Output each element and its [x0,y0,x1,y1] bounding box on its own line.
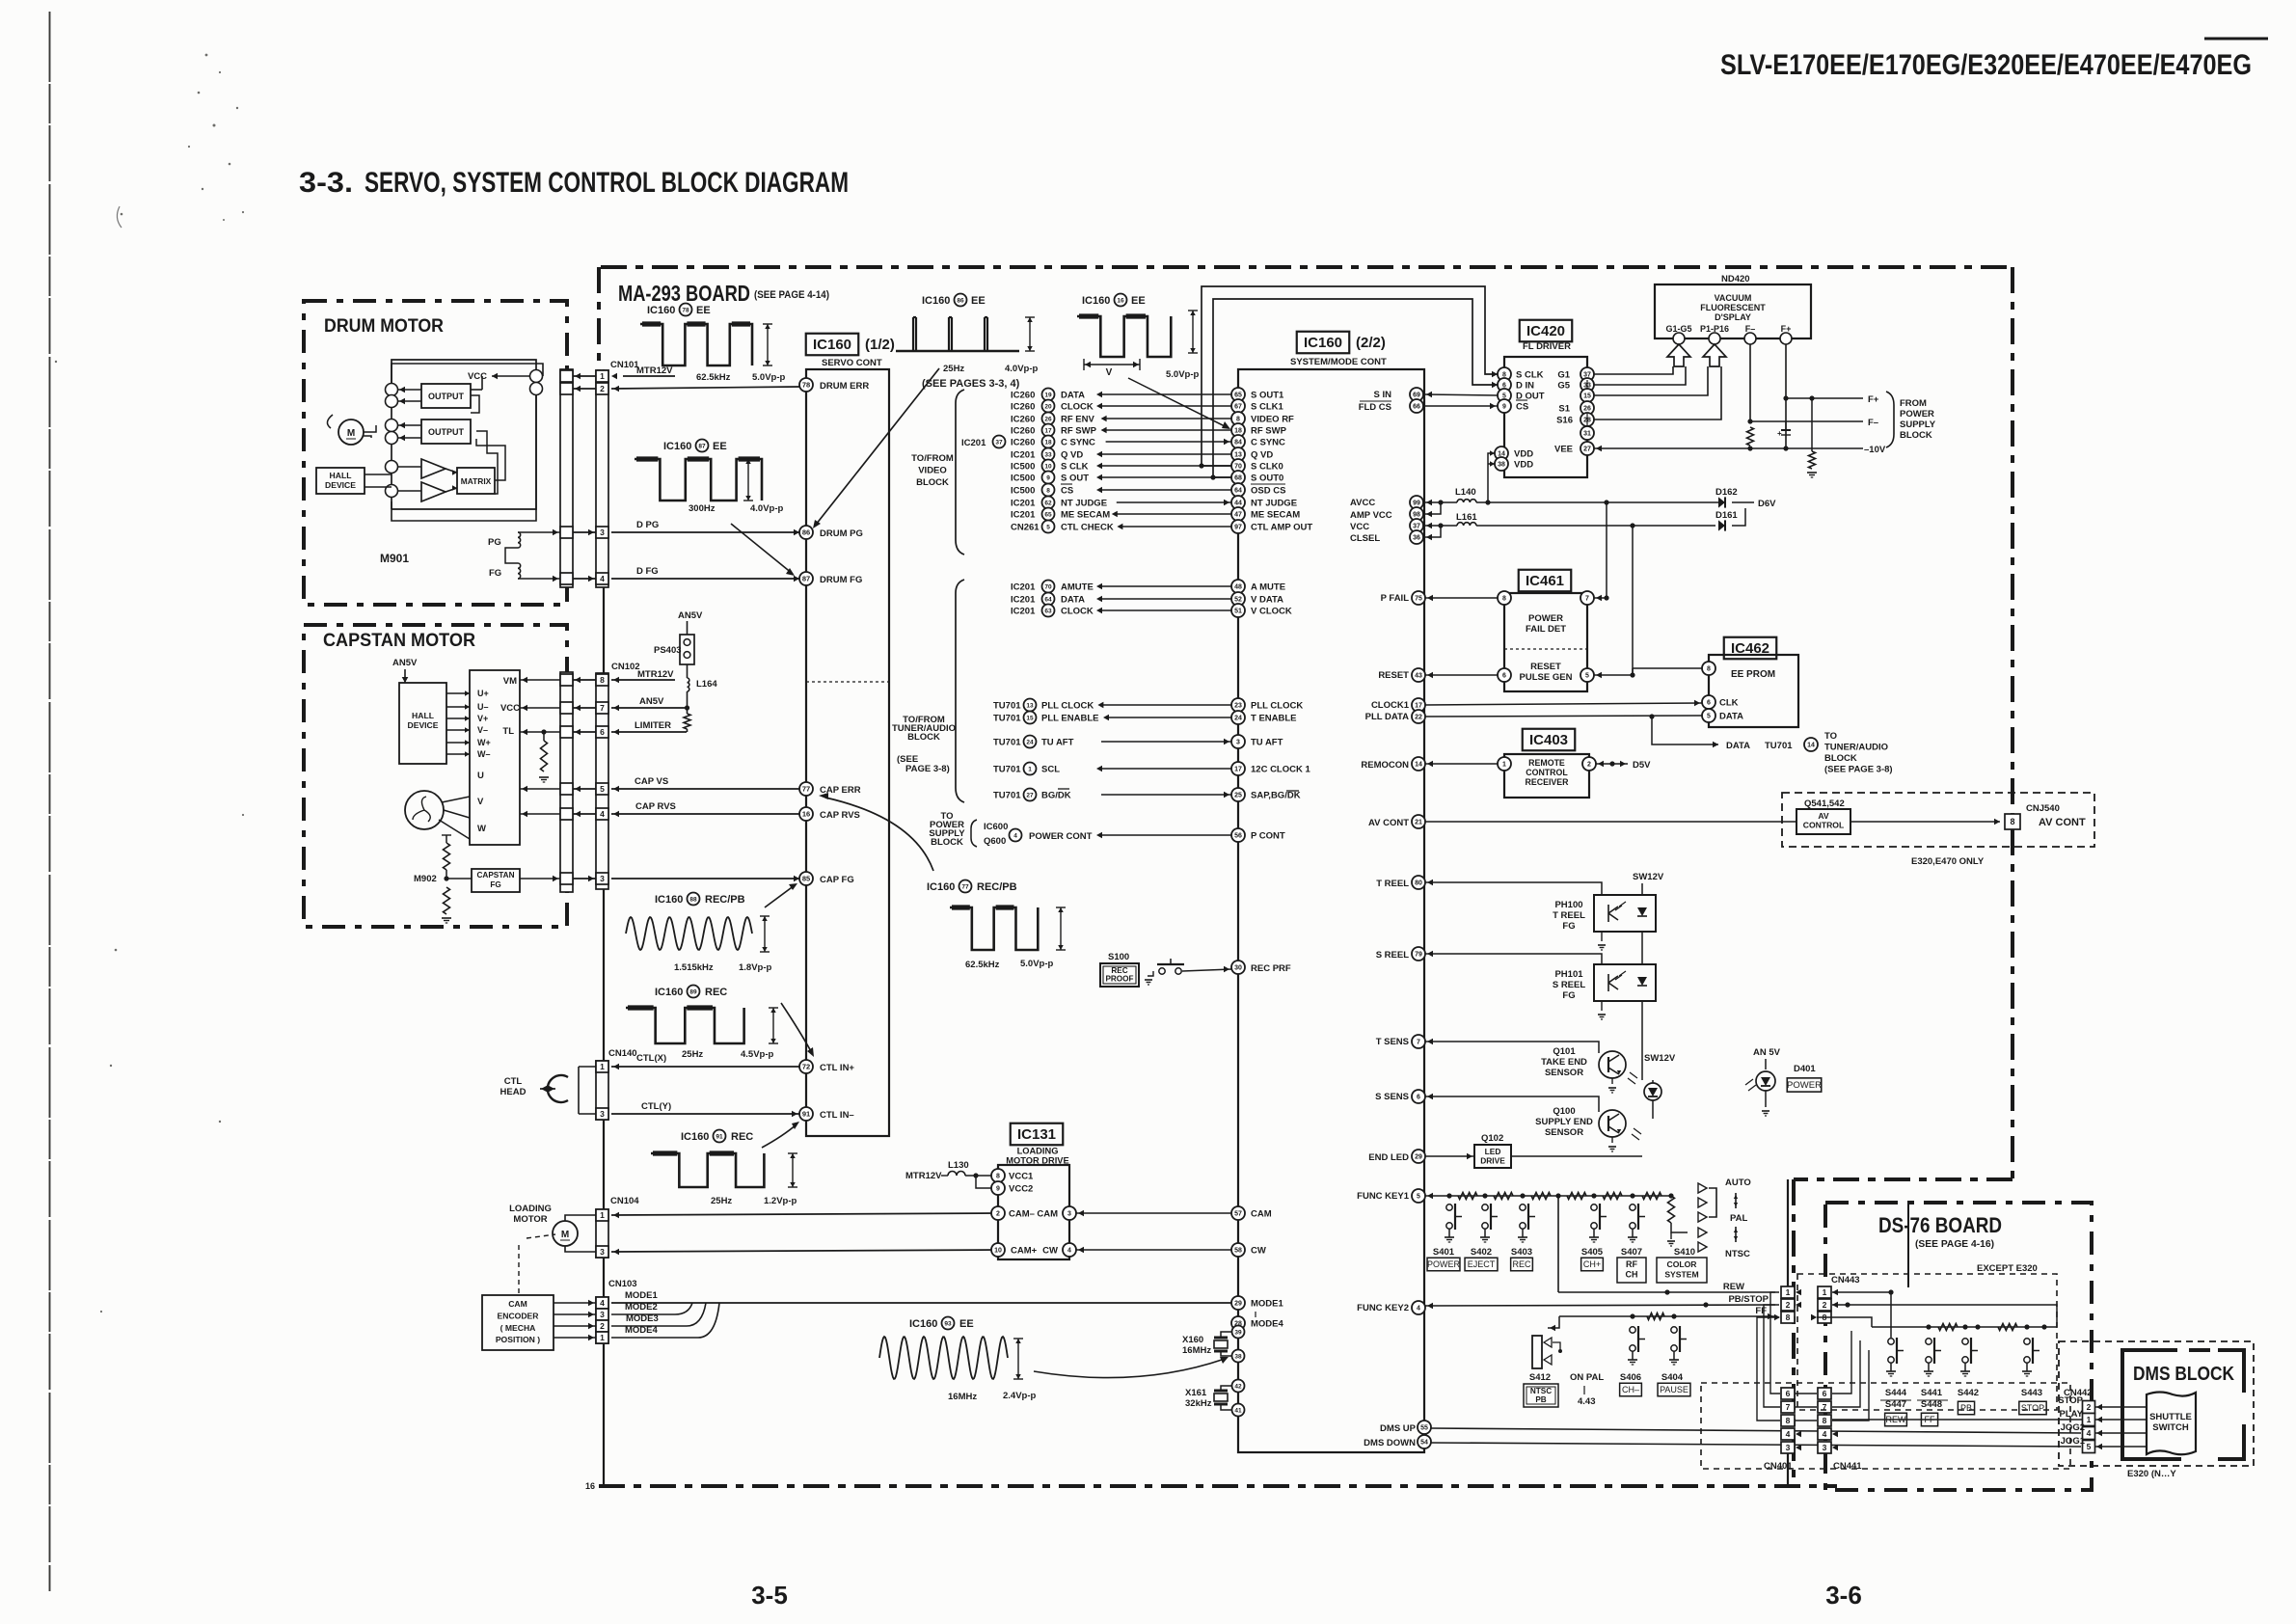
svg-text:4: 4 [1823,1429,1827,1439]
svg-text:IC500: IC500 [1011,462,1035,473]
svg-text:97: 97 [1234,525,1242,531]
wire CAM line CN104-1 to IC131 [611,1213,998,1215]
svg-text:17: 17 [1044,427,1052,434]
svg-text:14: 14 [1415,762,1422,769]
svg-text:MTR12V: MTR12V [636,365,673,376]
svg-text:AMP VCC: AMP VCC [1350,510,1392,521]
svg-text:W–: W– [477,749,491,759]
svg-text:POWER: POWER [1528,613,1563,624]
svg-text:S1: S1 [1558,404,1570,415]
svg-text:S405: S405 [1581,1247,1604,1258]
CAM ENCODER box [482,1295,554,1350]
svg-text:21: 21 [1415,820,1422,826]
svg-text:MTR12V: MTR12V [637,669,674,680]
svg-text:TUNER/AUDIO: TUNER/AUDIO [1824,743,1888,753]
wire MODE3 stub [611,1325,687,1327]
svg-text:PAUSE: PAUSE [1660,1385,1688,1394]
svg-text:D'SPLAY: D'SPLAY [1715,312,1751,322]
svg-text:CN103: CN103 [608,1279,637,1289]
hollow arrow into G1-G5 [1667,344,1690,366]
svg-text:48: 48 [1234,584,1242,591]
wire MTR12V into CN101-1 [623,375,675,377]
svg-text:G5: G5 [1557,381,1570,392]
svg-text:MA-293 BOARD: MA-293 BOARD [618,281,750,306]
svg-text:TU701: TU701 [1765,741,1793,751]
wire -10V line [1594,447,1863,449]
svg-text:38: 38 [1234,1353,1242,1360]
svg-text:3: 3 [600,874,605,883]
svg-text:RF SWP: RF SWP [1251,426,1287,437]
svg-text:M901: M901 [380,552,409,565]
svg-text:CNJ540: CNJ540 [2026,803,2060,814]
svg-text:NTSC: NTSC [1530,1387,1552,1395]
svg-text:X161: X161 [1185,1388,1207,1398]
svg-text:FG: FG [489,568,501,579]
svg-text:DMS DOWN: DMS DOWN [1364,1438,1416,1448]
svg-text:MOTOR: MOTOR [513,1214,547,1225]
wire MODE1 line [611,1302,1231,1304]
wire D FG [611,578,799,580]
pin 91 CTL IN- [799,1107,813,1121]
svg-text:TU AFT: TU AFT [1251,738,1283,748]
svg-text:5.0Vp-p: 5.0Vp-p [1020,959,1054,969]
svg-text:CONTROL: CONTROL [1803,821,1845,830]
selector triangles auto pal ntsc [1698,1183,1707,1193]
svg-text:SYSTEM: SYSTEM [1664,1270,1698,1280]
svg-text:TAKE END: TAKE END [1541,1057,1587,1068]
svg-text:29: 29 [1415,1154,1422,1161]
svg-text:8: 8 [1707,666,1711,673]
VFD vacuum fluorescent display box [1655,284,1811,338]
svg-text:IC160: IC160 [922,295,950,307]
svg-text:62.5kHz: 62.5kHz [965,960,1000,970]
wire S REEL line [1425,954,1602,964]
svg-text:D161: D161 [1715,510,1738,521]
output amp U1a [421,384,471,408]
svg-text:T ENABLE: T ENABLE [1251,714,1297,724]
wires motor to driver [439,791,470,798]
remote sensor S412 [1532,1336,1542,1368]
IC462 pins [1702,662,1715,675]
wire 28 to P1-P16 right [1594,366,1721,420]
svg-text:56: 56 [1234,833,1242,840]
svg-text:SUPPLY END: SUPPLY END [1535,1117,1593,1127]
svg-text:AN5V: AN5V [392,658,418,668]
svg-text:8: 8 [1786,1313,1791,1322]
wire CN441 stub [1823,1453,1825,1466]
svg-text:FROM: FROM [1900,398,1927,409]
svg-text:C SYNC: C SYNC [1061,438,1095,448]
waveform WF4 V square [1077,316,1171,357]
svg-text:8: 8 [1046,487,1050,494]
IC420 VDD pins [1495,447,1508,460]
svg-text:V DATA: V DATA [1251,595,1283,606]
wire CAP FG [611,878,799,880]
svg-text:ENCODER: ENCODER [498,1311,540,1320]
svg-text:U+: U+ [477,689,489,698]
svg-text:FUNC KEY2: FUNC KEY2 [1357,1303,1409,1313]
svg-text:P CONT: P CONT [1251,831,1285,842]
svg-text:IC260: IC260 [1011,415,1035,425]
svg-text:(1/2): (1/2) [865,337,895,353]
svg-text:(SEE PAGE 3-8): (SEE PAGE 3-8) [1824,765,1893,775]
svg-text:80: 80 [1415,880,1422,887]
svg-text:G1: G1 [1557,370,1570,381]
svg-text:Q VD: Q VD [1251,450,1273,461]
svg-text:26: 26 [1583,406,1591,413]
svg-text:PG: PG [488,537,501,548]
svg-text:77: 77 [961,883,969,890]
svg-text:TU701: TU701 [993,765,1021,775]
svg-text:65: 65 [1044,511,1052,518]
svg-text:U–: U– [477,702,489,712]
Q101 ground [1611,1078,1613,1084]
svg-text:33: 33 [1044,451,1052,458]
svg-text:MODE4: MODE4 [625,1325,659,1336]
DMS block inner bracket box [2122,1350,2181,1459]
svg-text:16: 16 [585,1481,595,1491]
curved arrow WF7 to CTL IN- [762,1124,797,1148]
svg-text:17: 17 [1234,767,1242,773]
svg-text:TU701: TU701 [993,701,1021,712]
svg-text:L140: L140 [1455,487,1476,498]
svg-text:M902: M902 [414,874,437,884]
svg-text:DATA: DATA [1061,595,1085,606]
switch S402 EJECT [1482,1204,1488,1210]
svg-text:2: 2 [1823,1300,1827,1310]
wire pin5 to IC462 pin8 [1633,667,1702,669]
wire CTL head to CN140 [579,1066,596,1068]
svg-text:4: 4 [600,574,605,583]
wire STOP loop [2044,1360,2079,1407]
svg-text:VACUUM: VACUUM [1715,293,1752,303]
svg-text:SLV-E170EE/E170EG/E320EE/E470E: SLV-E170EE/E170EG/E320EE/E470EE/E470EG [1720,49,2252,81]
wire FF left branch to S412 [1548,1316,1559,1328]
svg-text:25Hz: 25Hz [682,1049,703,1060]
svg-text:IC461: IC461 [1526,573,1564,589]
wires drum outputs [398,389,421,391]
svg-text:CLOCK1: CLOCK1 [1371,700,1410,711]
svg-text:4: 4 [1067,1248,1071,1255]
svg-text:S REEL: S REEL [1376,950,1410,961]
svg-text:OSD CS: OSD CS [1251,486,1285,497]
switch row resistor line [1872,1326,2057,1328]
svg-text:18: 18 [1234,428,1242,435]
svg-text:VIDEO RF: VIDEO RF [1251,415,1294,425]
svg-text:TU AFT: TU AFT [1041,738,1074,748]
svg-text:CAM: CAM [1251,1209,1272,1220]
BG/DK overline [1058,788,1069,790]
wire CN443-8 FF to S441 row [1817,1317,1872,1327]
svg-text:57: 57 [1234,1211,1242,1218]
svg-text:TU701: TU701 [993,738,1021,748]
svg-text:IC500: IC500 [1011,486,1035,497]
svg-text:2: 2 [2087,1402,2092,1412]
curved arrow WF6 to CTL IN+ [781,1003,812,1053]
wire F+ down [1785,344,1787,448]
svg-text:44: 44 [1234,501,1242,507]
wire main left bus vertical [603,369,605,1486]
svg-text:PB: PB [1960,1403,1972,1413]
svg-text:2: 2 [600,384,605,393]
svg-text:RF SWP: RF SWP [1061,426,1097,437]
IC160 (2/2) label [1297,332,1350,354]
svg-text:1: 1 [600,1333,605,1342]
resistor on F- leg [1747,427,1754,446]
svg-text:3-3.: 3-3. [299,167,353,199]
svg-text:4.0Vp-p: 4.0Vp-p [1005,364,1039,374]
MA-293 board dashed outline [601,265,2012,269]
svg-text:EE: EE [1131,295,1146,307]
svg-text:CN104: CN104 [610,1196,639,1206]
svg-text:SWITCH: SWITCH [2152,1422,2189,1433]
svg-text:IC600: IC600 [984,822,1008,832]
svg-text:IC260: IC260 [1011,438,1035,448]
svg-text:S447: S447 [1885,1399,1906,1410]
svg-text:REC: REC [731,1131,753,1143]
svg-text:SERVO, SYSTEM CONTROL BLOCK DI: SERVO, SYSTEM CONTROL BLOCK DIAGRAM [365,167,849,199]
svg-text:CLOCK: CLOCK [1061,402,1094,413]
arrow to DRUM PG [816,368,939,525]
svg-text:IC500: IC500 [1011,474,1035,484]
svg-text:12C CLOCK 1: 12C CLOCK 1 [1251,765,1310,775]
svg-text:5: 5 [1707,714,1711,720]
svg-text:30: 30 [1234,965,1242,972]
svg-text:CW: CW [1251,1246,1266,1257]
svg-text:S402: S402 [1471,1247,1492,1258]
svg-text:7: 7 [1417,1040,1420,1046]
switch S406 CH- [1630,1327,1635,1333]
wire REMOCON to IC403 [1425,763,1498,765]
svg-text:IC201: IC201 [1011,510,1036,521]
pin 72 CTL IN+ [799,1060,813,1073]
svg-text:SUPPLY: SUPPLY [1900,420,1936,430]
hall device (drum) [316,468,365,494]
svg-text:POWER: POWER [1900,409,1934,420]
wires drum output feedback [471,395,479,413]
wire REW row [1558,1291,1775,1293]
svg-text:98: 98 [1413,512,1420,519]
svg-text:91: 91 [802,1110,810,1119]
pin 86 DRUM PG [799,526,813,539]
wire top loop S OUT0 to IC420 D IN [1213,299,1498,477]
svg-text:16: 16 [1117,297,1124,304]
svg-text:VCC2: VCC2 [1009,1184,1033,1195]
svg-text:V–: V– [477,725,488,735]
wires VM VCC TL to strip [520,679,560,681]
svg-text:IC201: IC201 [1011,595,1036,606]
AV CONTROL box [1796,809,1850,834]
svg-text:5: 5 [1417,1194,1420,1201]
wire F- line [1747,419,1752,423]
svg-text:62.5kHz: 62.5kHz [696,372,731,383]
wire LED chain [1652,1100,1654,1119]
svg-text:8: 8 [2010,817,2014,826]
svg-text:9: 9 [1046,474,1050,481]
wire CAP RVS [611,813,799,815]
svg-text:CAPSTAN: CAPSTAN [477,871,515,880]
svg-text:ME SECAM: ME SECAM [1251,510,1300,521]
from power supply brace [1886,392,1894,447]
capacitor electrolytic [1781,429,1791,431]
wire D OUT to S IN [1424,394,1498,395]
svg-text:CN441: CN441 [1833,1461,1862,1472]
svg-text:S CLK: S CLK [1061,462,1089,473]
svg-text:7: 7 [1585,596,1589,603]
svg-text:POWER: POWER [1427,1259,1461,1269]
svg-text:RESET: RESET [1378,670,1409,681]
svg-text:PB: PB [1535,1395,1546,1404]
svg-text:2: 2 [996,1211,1000,1218]
wire AN5V into CN102-7 [611,707,687,709]
wire VCC2 branch [976,1176,991,1188]
pin 78 DRUM ERR [799,378,813,392]
svg-text:CLK: CLK [1719,698,1739,709]
svg-text:10: 10 [1044,463,1052,470]
svg-text:39: 39 [1234,1329,1242,1336]
matrix block [457,468,495,494]
svg-text:CAM: CAM [1037,1209,1058,1220]
wire SW12V down through optos [1641,883,1643,895]
svg-text:5.0Vp-p: 5.0Vp-p [752,372,786,383]
op-amp IC160 (1/2) servo cont box [806,369,889,1136]
svg-text:OUTPUT: OUTPUT [428,392,465,401]
svg-text:93: 93 [944,1320,952,1327]
svg-text:5.0Vp-p: 5.0Vp-p [1166,369,1200,380]
func key1 resistors [1458,1193,1477,1200]
svg-text:DS-76 BOARD: DS-76 BOARD [1878,1213,2002,1237]
svg-text:DRUM MOTOR: DRUM MOTOR [324,316,444,337]
wire IC461 pin7 to D162 node [1594,597,1607,599]
svg-text:SW12V: SW12V [1644,1053,1676,1064]
svg-text:64: 64 [1044,596,1052,603]
svg-text:4: 4 [600,809,605,819]
svg-text:RF ENV: RF ENV [1061,415,1095,425]
svg-text:78: 78 [802,381,810,390]
wire vertical to IC461 pin7 [1606,502,1607,598]
svg-text:3: 3 [600,1109,605,1119]
svg-text:PH100: PH100 [1554,900,1582,910]
wire RESET to IC461 pin6 [1425,674,1498,676]
svg-text:8: 8 [1786,1416,1791,1425]
svg-text:AN5V: AN5V [678,610,703,621]
wire funckey1 branch down [1557,1196,1559,1292]
svg-text:54: 54 [1420,1440,1428,1447]
svg-text:2.4Vp-p: 2.4Vp-p [1003,1391,1037,1401]
svg-text:41: 41 [1234,1407,1242,1414]
svg-text:75: 75 [1415,596,1422,603]
svg-text:87: 87 [802,575,810,583]
svg-text:STOP: STOP [2021,1403,2044,1413]
svg-text:27: 27 [1026,792,1034,798]
wire AN5V arrow into hall [404,669,406,683]
svg-text:ME SECAM: ME SECAM [1061,510,1110,521]
svg-text:EE: EE [959,1318,974,1330]
svg-text:72: 72 [802,1063,810,1071]
drum motor inner frame [392,360,536,509]
VCC circles right [530,370,543,383]
svg-text:1: 1 [1502,762,1506,769]
svg-text:EE: EE [696,305,711,316]
svg-text:D PG: D PG [636,520,659,530]
wire FUNC KEY2 row PB/STOP [1425,1305,1775,1306]
wire CN443 feed from DS76 top [1907,1204,1909,1287]
svg-text:4: 4 [600,1298,605,1308]
svg-text:REC: REC [1512,1259,1531,1269]
svg-text:18: 18 [1044,439,1052,446]
svg-text:IC160: IC160 [647,305,675,316]
waveform WF6 25Hz square [626,1008,744,1043]
svg-text:4: 4 [1417,1306,1420,1313]
IC403 label [1523,729,1576,751]
wire opto PH100 ground [1601,932,1603,941]
svg-text:S CLK1: S CLK1 [1251,402,1284,413]
svg-text:5: 5 [1046,524,1050,530]
svg-text:REMOCON: REMOCON [1361,760,1409,771]
svg-text:AV CONT: AV CONT [2039,817,2086,828]
waveform WF5 sine 1.515kHz [626,917,752,950]
svg-text:NT JUDGE: NT JUDGE [1061,499,1107,509]
svg-text:IC160: IC160 [909,1318,937,1330]
svg-text:PLL CLOCK: PLL CLOCK [1041,701,1094,712]
wire FF row [1559,1315,1775,1317]
svg-text:1: 1 [600,371,605,381]
svg-text:300Hz: 300Hz [689,503,716,514]
waveform WF1 62.5kHz square [640,324,752,365]
svg-text:S SENS: S SENS [1375,1092,1409,1102]
svg-text:6: 6 [1823,1389,1827,1398]
svg-text:43: 43 [1415,673,1422,680]
svg-text:FG: FG [1562,990,1575,1001]
wire IC403 pin2 D5V [1596,763,1628,765]
svg-text:VCC: VCC [500,703,520,714]
svg-text:IC160: IC160 [1082,295,1110,307]
svg-text:31: 31 [1583,431,1591,438]
pin 87 DRUM FG [799,572,813,585]
wire CTL(X) [611,1066,799,1068]
svg-text:VM: VM [503,676,517,687]
pin 57 CAM [1231,1206,1245,1220]
svg-text:W: W [477,824,486,834]
svg-text:D FG: D FG [636,566,659,577]
svg-text:BLOCK: BLOCK [1824,753,1857,764]
wire CW line CN104-3 to IC131 [611,1250,998,1252]
svg-text:78: 78 [682,307,689,313]
svg-text:S444: S444 [1885,1388,1907,1398]
wire CN443-2 to loop [1832,1305,2057,1327]
svg-text:CH: CH [1626,1270,1638,1280]
svg-text:IC201: IC201 [1011,607,1036,617]
svg-text:5: 5 [2087,1442,2092,1451]
svg-text:CS: CS [1061,486,1073,497]
inductor L164 [687,664,689,678]
resistor S410 vertical [1668,1196,1675,1223]
svg-text:FUNC KEY1: FUNC KEY1 [1357,1191,1410,1202]
wire 15 to P1-P16 [1594,366,1708,395]
svg-text:4: 4 [1013,832,1017,839]
svg-text:67: 67 [1234,404,1242,411]
CAPSTAN MOTOR dashed box [304,625,567,927]
svg-text:F–: F– [1868,418,1878,428]
svg-text:55: 55 [1420,1425,1428,1432]
IC403 pins [1498,757,1511,771]
svg-text:42: 42 [1234,1383,1242,1390]
connector strip drum side [560,369,573,587]
wire D5V vertical [1611,675,1613,764]
wire MODE4 stub [611,1337,698,1339]
wire AMP VCC branch [1424,502,1441,514]
header corner dash [2204,38,2268,41]
